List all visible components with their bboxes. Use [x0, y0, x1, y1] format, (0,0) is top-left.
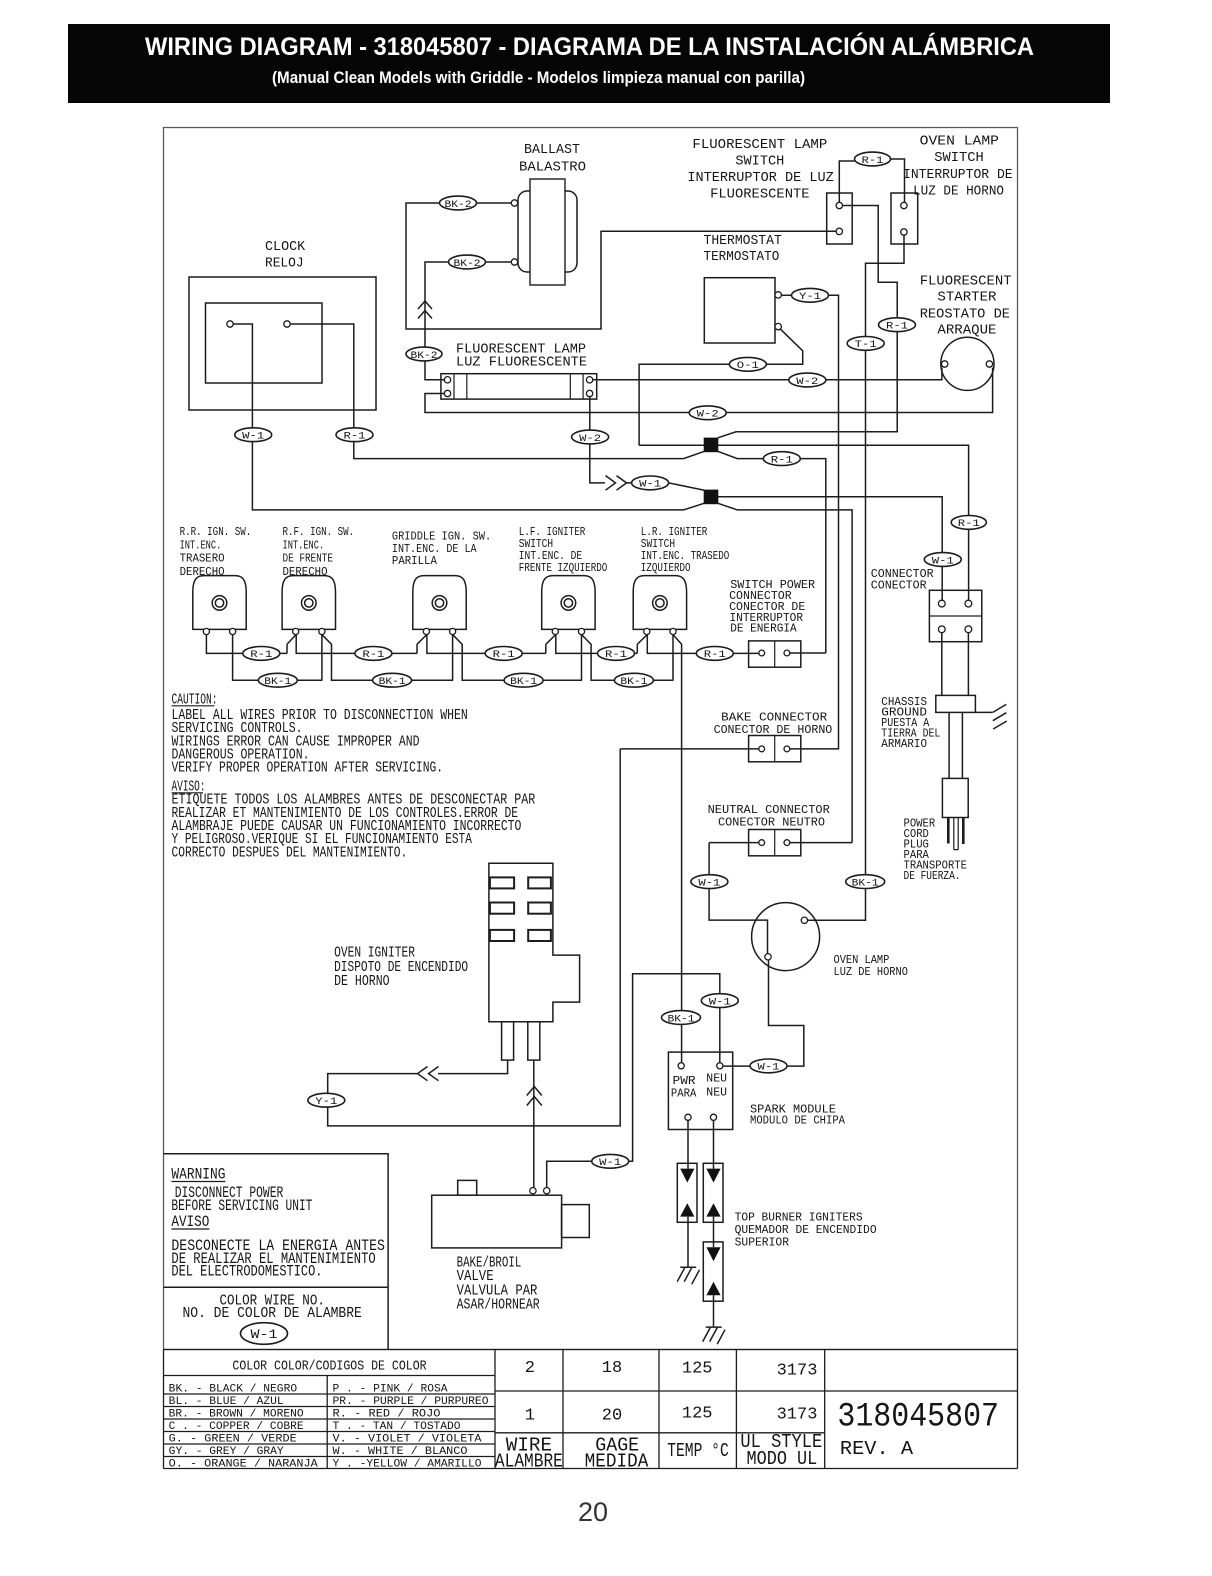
svg-text:BALASTRO: BALASTRO [519, 160, 586, 176]
clock terminal left [227, 321, 233, 327]
svg-text:R-1: R-1 [704, 649, 726, 661]
svg-text:V. - VIOLET / VIOLETA: V. - VIOLET / VIOLETA [333, 1434, 482, 1446]
svg-text:3173: 3173 [777, 1406, 818, 1425]
switch power connector [749, 641, 801, 667]
svg-text:BL. - BLUE / AZUL: BL. - BLUE / AZUL [169, 1396, 284, 1408]
ground symbol under igniter 3 [703, 1327, 725, 1344]
svg-text:SWITCH: SWITCH [641, 538, 675, 551]
svg-text:BK-1: BK-1 [264, 676, 291, 688]
svg-text:BK-2: BK-2 [411, 350, 438, 362]
svg-text:O. - ORANGE / NARANJA: O. - ORANGE / NARANJA [169, 1459, 318, 1471]
svg-text:DE ENERGIA: DE ENERGIA [730, 622, 797, 636]
wire label BK-1 (bus 1) [258, 673, 297, 687]
svg-text:BK-1: BK-1 [852, 877, 879, 889]
svg-text:MODO UL: MODO UL [747, 1448, 818, 1470]
wire W-1: valve left terminal up to oven igniter leg 2 [533, 1060, 535, 1187]
power cord plug body [942, 778, 968, 817]
ballast terminal bottom [511, 259, 517, 265]
svg-text:18: 18 [602, 1359, 622, 1378]
wire Y-1: oven igniter leg to bake connector left side [328, 749, 621, 1126]
svg-text:LUZ DE HORNO: LUZ DE HORNO [834, 965, 908, 979]
svg-text:R-1: R-1 [493, 649, 515, 661]
svg-text:BR. - BROWN / MORENO: BR. - BROWN / MORENO [169, 1409, 304, 1421]
wire label W-2 [789, 373, 826, 387]
lamp terminal TL [444, 377, 450, 383]
wire W-2 upper: lamp top-right terminal to starter left terminal [593, 368, 942, 380]
wire label W-1 (spark NEU right) [750, 1059, 787, 1073]
svg-text:REV. A: REV. A [840, 1438, 914, 1460]
svg-text:R.R. IGN. SW.: R.R. IGN. SW. [180, 526, 252, 539]
svg-text:P . - PINK / ROSA: P . - PINK / ROSA [333, 1384, 448, 1396]
svg-text:CONECTOR NEUTRO: CONECTOR NEUTRO [718, 816, 825, 830]
wire W-1: junction 2 right to connector drop [718, 497, 942, 600]
svg-text:W-2: W-2 [796, 376, 818, 388]
warning box [164, 1154, 389, 1350]
chassis ground bar [936, 695, 976, 712]
igniter switch S5 (L.R.) [633, 576, 686, 630]
connector (main harness) [929, 590, 981, 641]
svg-text:125: 125 [682, 1405, 713, 1424]
wire label R-1 [763, 452, 800, 466]
chevron splice on Y-1 wire [418, 1067, 439, 1081]
svg-text:DE FUERZA.: DE FUERZA. [904, 869, 961, 883]
svg-text:W-1: W-1 [932, 555, 954, 567]
oven igniter body [489, 863, 580, 1022]
spec table grid [164, 1350, 1018, 1469]
svg-text:BK-1: BK-1 [620, 676, 647, 688]
wire label W-1 [632, 476, 669, 490]
lamp terminal TR [586, 377, 592, 383]
ballast transformer body [518, 191, 577, 272]
thermostat body [704, 278, 775, 343]
svg-text:IZQUIERDO: IZQUIERDO [641, 562, 691, 575]
svg-text:ARRAQUE: ARRAQUE [937, 323, 996, 339]
wire label Y-1 [792, 288, 829, 302]
svg-text:SWITCH: SWITCH [519, 538, 553, 551]
wire O-1: thermostat lower terminal down-left then to junction 1 line [639, 329, 803, 445]
svg-text:DEL ELECTRODOMESTICO.: DEL ELECTRODOMESTICO. [171, 1262, 322, 1280]
svg-text:T . - TAN / TOSTADO: T . - TAN / TOSTADO [333, 1421, 461, 1433]
wire label R-1 [951, 516, 986, 530]
svg-text:CONECTOR DE HORNO: CONECTOR DE HORNO [714, 723, 833, 737]
top burner igniter 2 [703, 1163, 723, 1222]
wire BK-1 bus along igniter switches [233, 635, 674, 681]
svg-text:R-1: R-1 [862, 155, 884, 167]
svg-text:MEDIDA: MEDIDA [585, 1451, 649, 1473]
svg-text:GRIDDLE IGN. SW.: GRIDDLE IGN. SW. [392, 531, 491, 544]
svg-text:W-1: W-1 [758, 1062, 780, 1074]
svg-text:BALLAST: BALLAST [524, 142, 580, 158]
wire R-1 bus along igniter switches [206, 635, 758, 654]
ballast terminal top [511, 200, 517, 206]
svg-text:L.F. IGNITER: L.F. IGNITER [519, 526, 586, 539]
svg-text:W. - WHITE / BLANCO: W. - WHITE / BLANCO [333, 1446, 468, 1458]
igniter switch S3 (griddle) [413, 576, 466, 630]
wire W-1 continues to junction square 2 [627, 483, 706, 491]
igniter switch S1 (R.R.) [193, 576, 246, 630]
svg-text:318045807: 318045807 [837, 1398, 999, 1436]
wire Y-1: thermostat top terminal to bake connector right terminal [781, 295, 838, 749]
wire BK-2 lower: ballast bottom terminal down to fluorescent lamp top-left terminal [425, 262, 511, 380]
wire node line y445: through junction 1 to connector R-1 drop [639, 445, 969, 600]
wire label R-1 [879, 318, 916, 332]
svg-text:O-1: O-1 [737, 360, 759, 372]
wire label R-1 [855, 152, 891, 166]
svg-text:W-1: W-1 [251, 1328, 278, 1342]
wire T-1: oven lamp switch bottom terminal to oven lamp top terminal [808, 235, 904, 920]
svg-text:W-1: W-1 [709, 996, 731, 1008]
wire W-1: junction 2 lower-right to neutral connector right terminal [718, 503, 853, 842]
svg-text:FLUORESCENTE: FLUORESCENTE [710, 187, 810, 203]
junction square 1 [704, 438, 719, 453]
svg-text:C . - COPPER / COBRE: C . - COPPER / COBRE [169, 1421, 304, 1433]
wire label BK-2 [449, 255, 486, 269]
svg-text:R-1: R-1 [344, 431, 366, 443]
bake/broil valve body [432, 1195, 562, 1248]
svg-text:2: 2 [525, 1359, 535, 1378]
svg-text:LUZ FLUORESCENTE: LUZ FLUORESCENTE [456, 355, 587, 371]
oven lamp switch body [891, 193, 918, 244]
svg-text:R-1: R-1 [771, 454, 793, 466]
svg-text:Y-1: Y-1 [799, 291, 821, 303]
oven igniter fins [490, 877, 551, 941]
chassis ground symbol [975, 704, 1006, 729]
wire label W-2 [689, 406, 726, 420]
wire label O-1 [729, 357, 766, 371]
wire label R-1 (bus 3) [485, 647, 522, 661]
clock (outer box) [189, 277, 376, 410]
svg-text:INT.ENC.: INT.ENC. [283, 539, 325, 552]
wire label R-1 (bus 5) [696, 647, 733, 661]
wire BK-2 upper: ballast top terminal to fluorescent lamp switch bottom terminal [406, 203, 836, 329]
neutral connector [749, 830, 801, 856]
svg-text:SWITCH: SWITCH [735, 154, 784, 170]
svg-text:ASAR/HORNEAR: ASAR/HORNEAR [457, 1296, 540, 1313]
color wire no. legend [183, 1293, 362, 1322]
wire W-1: spark NEU up and over to valve right terminal [547, 974, 720, 1188]
top burner igniter 1 [677, 1163, 697, 1222]
wire label Y-1 (oven igniter) [308, 1093, 345, 1107]
wire W-1: neutral connector left terminal to oven lamp lower terminal [709, 843, 767, 954]
wire label BK-1 (spark PWR) [662, 1011, 701, 1025]
svg-text:VERIFY PROPER OPERATION AFTER: VERIFY PROPER OPERATION AFTER SERVICING. [172, 760, 444, 777]
oven lamp bulb [752, 903, 820, 971]
wire label W-1 [924, 553, 961, 567]
wire label W-1 (spark NEU riser) [701, 994, 738, 1008]
svg-text:THERMOSTAT: THERMOSTAT [704, 233, 782, 249]
svg-text:W-2: W-2 [697, 409, 719, 421]
svg-text:AVISO: AVISO [171, 1213, 209, 1231]
junction square 2 [704, 490, 719, 505]
svg-text:20: 20 [578, 1497, 608, 1527]
svg-text:L.R. IGNITER: L.R. IGNITER [641, 526, 708, 539]
svg-text:R-1: R-1 [362, 649, 384, 661]
wire R-1: clock to junction 1 lower-left diagonal [290, 324, 704, 459]
wire: spark module outputs to top burner igniters [688, 1121, 714, 1328]
svg-text:INTERRUPTOR DE: INTERRUPTOR DE [903, 167, 1013, 183]
lamp terminal BR [586, 390, 592, 396]
power cord plug pins [947, 818, 950, 844]
svg-text:BK-1: BK-1 [379, 676, 406, 688]
svg-text:NEU: NEU [706, 1086, 727, 1100]
svg-text:FLUORESCENT LAMP: FLUORESCENT LAMP [692, 137, 827, 153]
svg-text:W-1: W-1 [599, 1157, 621, 1169]
clock terminal right [284, 321, 290, 327]
igniter switch S4 (L.F.) [542, 576, 595, 630]
svg-text:1: 1 [525, 1406, 535, 1425]
svg-text:DE HORNO: DE HORNO [334, 973, 390, 990]
svg-text:CORRECTO DESPUES DEL MANTENIMI: CORRECTO DESPUES DEL MANTENIMIENTO. [172, 844, 408, 861]
svg-text:COLOR COLOR/CODIGOS DE COLOR: COLOR COLOR/CODIGOS DE COLOR [232, 1358, 427, 1374]
svg-text:GY. - GREY / GRAY: GY. - GREY / GRAY [169, 1446, 284, 1458]
svg-text:INT.ENC.: INT.ENC. [180, 539, 222, 552]
svg-text:R. - RED / ROJO: R. - RED / ROJO [333, 1409, 441, 1421]
svg-text:W-1: W-1 [639, 479, 661, 491]
svg-text:(Manual Clean Models with Grid: (Manual Clean Models with Griddle - Mode… [272, 68, 805, 87]
svg-text:ALAMBRE: ALAMBRE [495, 1451, 563, 1473]
svg-text:WARNING: WARNING [171, 1165, 225, 1183]
svg-text:BK. - BLACK / NEGRO: BK. - BLACK / NEGRO [169, 1384, 298, 1396]
oven igniter legs [502, 1022, 514, 1060]
wire W-2 lamp bottom-left to starter right terminal (net W-2 lower) [425, 368, 993, 413]
svg-text:INT.ENC. DE LA: INT.ENC. DE LA [392, 543, 477, 556]
svg-text:3173: 3173 [777, 1362, 818, 1381]
wire label BK-1 (bus 2) [373, 673, 412, 687]
svg-text:INTERRUPTOR DE LUZ: INTERRUPTOR DE LUZ [687, 170, 833, 186]
svg-text:FRENTE IZQUIERDO: FRENTE IZQUIERDO [519, 562, 608, 575]
wire label BK-1 (bus 3) [504, 673, 543, 687]
svg-text:DERECHO: DERECHO [283, 566, 328, 579]
wire label W-2 [572, 430, 609, 444]
svg-text:R.F. IGN. SW.: R.F. IGN. SW. [283, 526, 355, 539]
svg-text:RELOJ: RELOJ [265, 256, 304, 272]
wire R-1: junction 1 to switch power connector right side [718, 451, 826, 653]
svg-text:DE FRENTE: DE FRENTE [283, 553, 334, 566]
wire R-1: oven lamp switch top link [839, 159, 904, 209]
svg-text:PARILLA: PARILLA [392, 555, 437, 568]
svg-text:NO. DE COLOR DE ALAMBRE: NO. DE COLOR DE ALAMBRE [183, 1306, 362, 1322]
svg-text:FLUORESCENT: FLUORESCENT [920, 273, 1012, 289]
wire label BK-1 (bus 4) [614, 673, 653, 687]
svg-text:BK-1: BK-1 [668, 1013, 695, 1025]
svg-text:PARA: PARA [671, 1086, 697, 1100]
svg-text:W-2: W-2 [579, 433, 601, 445]
svg-text:CLOCK: CLOCK [265, 239, 306, 255]
svg-text:TEMP °C: TEMP °C [667, 1440, 729, 1462]
wire BK-1: fifth switch down to spark module PWR [673, 635, 682, 1063]
title bar [68, 24, 1110, 103]
svg-text:R-1: R-1 [886, 321, 908, 333]
chevron splice on valve igniter wire [527, 1087, 542, 1106]
svg-text:G. - GREEN / VERDE: G. - GREEN / VERDE [169, 1434, 297, 1446]
wire label BK-1 (oven lamp) [846, 875, 885, 889]
svg-text:BK-2: BK-2 [445, 199, 472, 211]
wire W-1: clock to junction square 2 [233, 324, 704, 510]
svg-text:OVEN LAMP: OVEN LAMP [920, 134, 999, 150]
wire label BK-2 [440, 196, 477, 210]
svg-text:INT.ENC. DE: INT.ENC. DE [519, 550, 582, 563]
wire label T-1 [847, 337, 884, 351]
clock inner box [206, 303, 323, 383]
wire R-1: bake connector left terminal lead [620, 748, 759, 750]
wire label R-1 (bus 1) [243, 647, 280, 661]
svg-text:BK-2: BK-2 [454, 258, 481, 270]
wire label R-1 [336, 428, 373, 442]
fluorescent lamp tube [441, 374, 597, 399]
fluorescent lamp switch body [827, 193, 853, 244]
svg-text:R-1: R-1 [958, 518, 980, 530]
svg-text:NEU: NEU [706, 1072, 727, 1086]
wire: connector to chassis ground [942, 633, 969, 696]
wire label W-1 (valve) [592, 1154, 629, 1168]
svg-text:R-1: R-1 [250, 649, 272, 661]
wire W-2/W-1: lamp bottom-right terminal down to splice and W-1 toward junction 2 [590, 397, 605, 483]
wire: chassis ground to power cord plug [949, 712, 962, 778]
svg-text:R-1: R-1 [605, 649, 627, 661]
wire label R-1 (bus 2) [355, 647, 392, 661]
outer border [164, 128, 1018, 1350]
wire label R-1 (bus 4) [598, 647, 635, 661]
wire label W-1 [235, 428, 272, 442]
top burner igniter 3 [703, 1242, 723, 1301]
svg-text:INT.ENC. TRASEDO: INT.ENC. TRASEDO [641, 550, 730, 563]
svg-text:SWITCH: SWITCH [934, 150, 984, 166]
svg-text:Y . -YELLOW / AMARILLO: Y . -YELLOW / AMARILLO [333, 1459, 482, 1471]
color code sub-grid [164, 1376, 496, 1469]
svg-text:125: 125 [682, 1360, 713, 1379]
igniter switch S2 (R.F.) [282, 576, 335, 630]
svg-text:SUPERIOR: SUPERIOR [735, 1235, 789, 1249]
lamp terminal BL [444, 390, 450, 396]
svg-text:TERMOSTATO: TERMOSTATO [704, 249, 780, 265]
svg-text:REOSTATO DE: REOSTATO DE [920, 306, 1010, 322]
svg-text:T-1: T-1 [855, 339, 877, 351]
svg-text:PR. - PURPLE / PURPUREO: PR. - PURPLE / PURPUREO [333, 1396, 489, 1408]
wire label W-1 (neutral connector drop) [691, 875, 728, 889]
svg-text:Y-1: Y-1 [315, 1096, 337, 1108]
svg-text:MODULO DE CHIPA: MODULO DE CHIPA [750, 1114, 846, 1128]
chevron splice on BK-2 vertical [418, 301, 432, 319]
svg-text:TRASERO: TRASERO [180, 553, 225, 566]
wire label W-1 (legend sample) [241, 1323, 288, 1345]
wire label BK-2 [406, 347, 442, 361]
svg-text:DERECHO: DERECHO [180, 566, 225, 579]
fluorescent starter body [941, 337, 994, 390]
bake connector [749, 736, 801, 762]
svg-text:20: 20 [602, 1406, 622, 1425]
svg-text:CONECTOR: CONECTOR [871, 579, 927, 593]
svg-text:W-1: W-1 [242, 431, 264, 443]
svg-text:STARTER: STARTER [937, 290, 997, 306]
wire W-1: oven lamp lower terminal down to spark module NEU [723, 960, 803, 1066]
wire R-1: fluorescent lamp switch top terminal to long vertical and junction 1 [718, 206, 897, 438]
svg-text:WIRING DIAGRAM - 318045807 -: WIRING DIAGRAM - 318045807 - DIAGRAMA DE… [145, 31, 1034, 61]
chevron splice on W-1 wire [606, 476, 627, 491]
svg-text:BK-1: BK-1 [510, 676, 537, 688]
svg-text:W-1: W-1 [698, 877, 720, 889]
svg-text:ARMARIO: ARMARIO [881, 737, 927, 751]
ground symbol under igniter 1 [677, 1267, 699, 1284]
spark module box [668, 1052, 732, 1129]
svg-text:LUZ DE HORNO: LUZ DE HORNO [913, 184, 1004, 200]
